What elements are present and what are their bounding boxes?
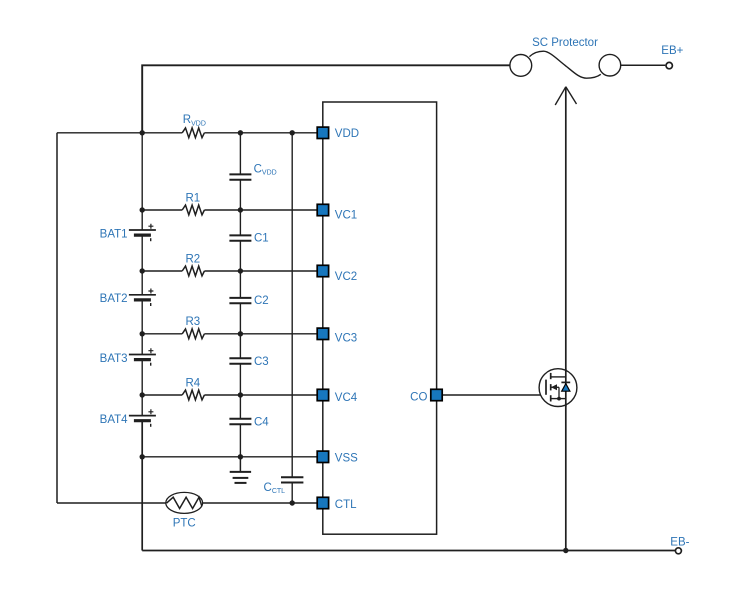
junction node VC3-cap xyxy=(238,331,243,336)
pin CO xyxy=(431,389,442,400)
svg-text:CCTL: CCTL xyxy=(264,482,286,495)
resistor R4 xyxy=(182,390,204,400)
battery BAT3 xyxy=(129,348,156,366)
svg-text:CVDD: CVDD xyxy=(254,163,277,176)
wire VC1 row xyxy=(142,209,317,211)
capacitor C1 xyxy=(229,235,251,240)
battery BAT2 xyxy=(129,289,156,307)
arrow to SC protector xyxy=(555,87,576,105)
junction node VC3-bat xyxy=(140,331,145,336)
svg-text:R2: R2 xyxy=(185,253,200,265)
svg-text:BAT2: BAT2 xyxy=(100,293,128,305)
wire capacitor column xyxy=(239,133,241,457)
wire battery column xyxy=(141,133,143,551)
capacitor C3 xyxy=(229,358,251,364)
svg-text:CTL: CTL xyxy=(335,499,357,511)
junction node VDD-aux xyxy=(290,130,295,135)
pin VC2 xyxy=(317,265,328,276)
svg-text:VSS: VSS xyxy=(335,452,358,464)
capacitor C4 xyxy=(229,419,251,425)
battery BAT4 xyxy=(129,409,156,427)
svg-text:C1: C1 xyxy=(254,233,269,245)
wire VDD row xyxy=(57,132,317,134)
svg-text:RVDD: RVDD xyxy=(183,114,206,127)
svg-text:EB-: EB- xyxy=(670,536,689,548)
wire CTL row xyxy=(57,502,317,504)
junction node VC4-bat xyxy=(140,392,145,397)
svg-text:C3: C3 xyxy=(254,356,269,368)
resistor R1 xyxy=(182,205,204,215)
svg-text:BAT4: BAT4 xyxy=(100,414,129,426)
wire FET column xyxy=(565,87,567,551)
wire top rail xyxy=(142,65,510,133)
wire CO to gate xyxy=(442,394,546,396)
wire EB+ lead xyxy=(621,64,666,66)
svg-text:VC1: VC1 xyxy=(335,209,357,221)
IC U1 body xyxy=(323,102,437,534)
battery BAT1 xyxy=(129,224,156,242)
SC protector fuse xyxy=(510,51,621,78)
wire aux column to CCTL xyxy=(291,133,293,503)
resistor R2 xyxy=(182,266,204,276)
pin VC3 xyxy=(317,328,328,339)
capacitor CVDD xyxy=(229,174,251,179)
junction node VDD-cap xyxy=(238,130,243,135)
junction node VSS-gnd xyxy=(238,454,243,459)
wire left rail xyxy=(56,133,58,503)
svg-text:VC4: VC4 xyxy=(335,392,358,404)
resistor RVDD xyxy=(182,128,204,138)
pin VDD xyxy=(317,127,328,138)
svg-text:SC Protector: SC Protector xyxy=(532,37,598,49)
capacitor C2 xyxy=(229,298,251,303)
ground xyxy=(230,457,251,483)
svg-text:C4: C4 xyxy=(254,416,269,428)
svg-text:R1: R1 xyxy=(185,192,200,204)
terminal EB+ xyxy=(666,62,672,68)
svg-text:VC2: VC2 xyxy=(335,271,357,283)
pin VSS xyxy=(317,451,328,462)
junction node EB- rail xyxy=(563,548,568,553)
svg-text:BAT1: BAT1 xyxy=(100,228,128,240)
capacitor CCTL xyxy=(281,477,303,482)
junction node VC4-cap xyxy=(238,392,243,397)
svg-text:CO: CO xyxy=(410,392,427,404)
junction node VC2-cap xyxy=(238,268,243,273)
junction node VC2-bat xyxy=(140,268,145,273)
svg-text:PTC: PTC xyxy=(173,518,196,530)
svg-text:R4: R4 xyxy=(185,377,200,389)
junction node VC1-cap xyxy=(238,207,243,212)
junction node CTL-CCTL xyxy=(290,500,295,505)
resistor R3 xyxy=(182,329,204,339)
pin VC4 xyxy=(317,389,328,400)
junction node VC1-bat xyxy=(140,207,145,212)
svg-text:C2: C2 xyxy=(254,295,269,307)
junction node VSS-bat xyxy=(140,454,145,459)
junction node VDD-bat xyxy=(140,130,145,135)
pin VC1 xyxy=(317,204,328,215)
wire VSS row xyxy=(142,456,317,458)
wire VC3 row xyxy=(142,333,317,335)
transistor Q1 MOSFET xyxy=(539,369,577,407)
wire bottom rail xyxy=(142,550,675,552)
svg-text:VC3: VC3 xyxy=(335,333,357,345)
svg-text:R3: R3 xyxy=(185,316,200,328)
wire VC4 row xyxy=(142,394,317,396)
svg-text:VDD: VDD xyxy=(335,128,359,140)
wire VC2 row xyxy=(142,270,317,272)
terminal EB- xyxy=(675,548,681,554)
PTC thermistor xyxy=(166,492,203,513)
svg-text:BAT3: BAT3 xyxy=(100,353,128,365)
pin CTL xyxy=(317,497,328,508)
svg-text:EB+: EB+ xyxy=(661,45,683,57)
